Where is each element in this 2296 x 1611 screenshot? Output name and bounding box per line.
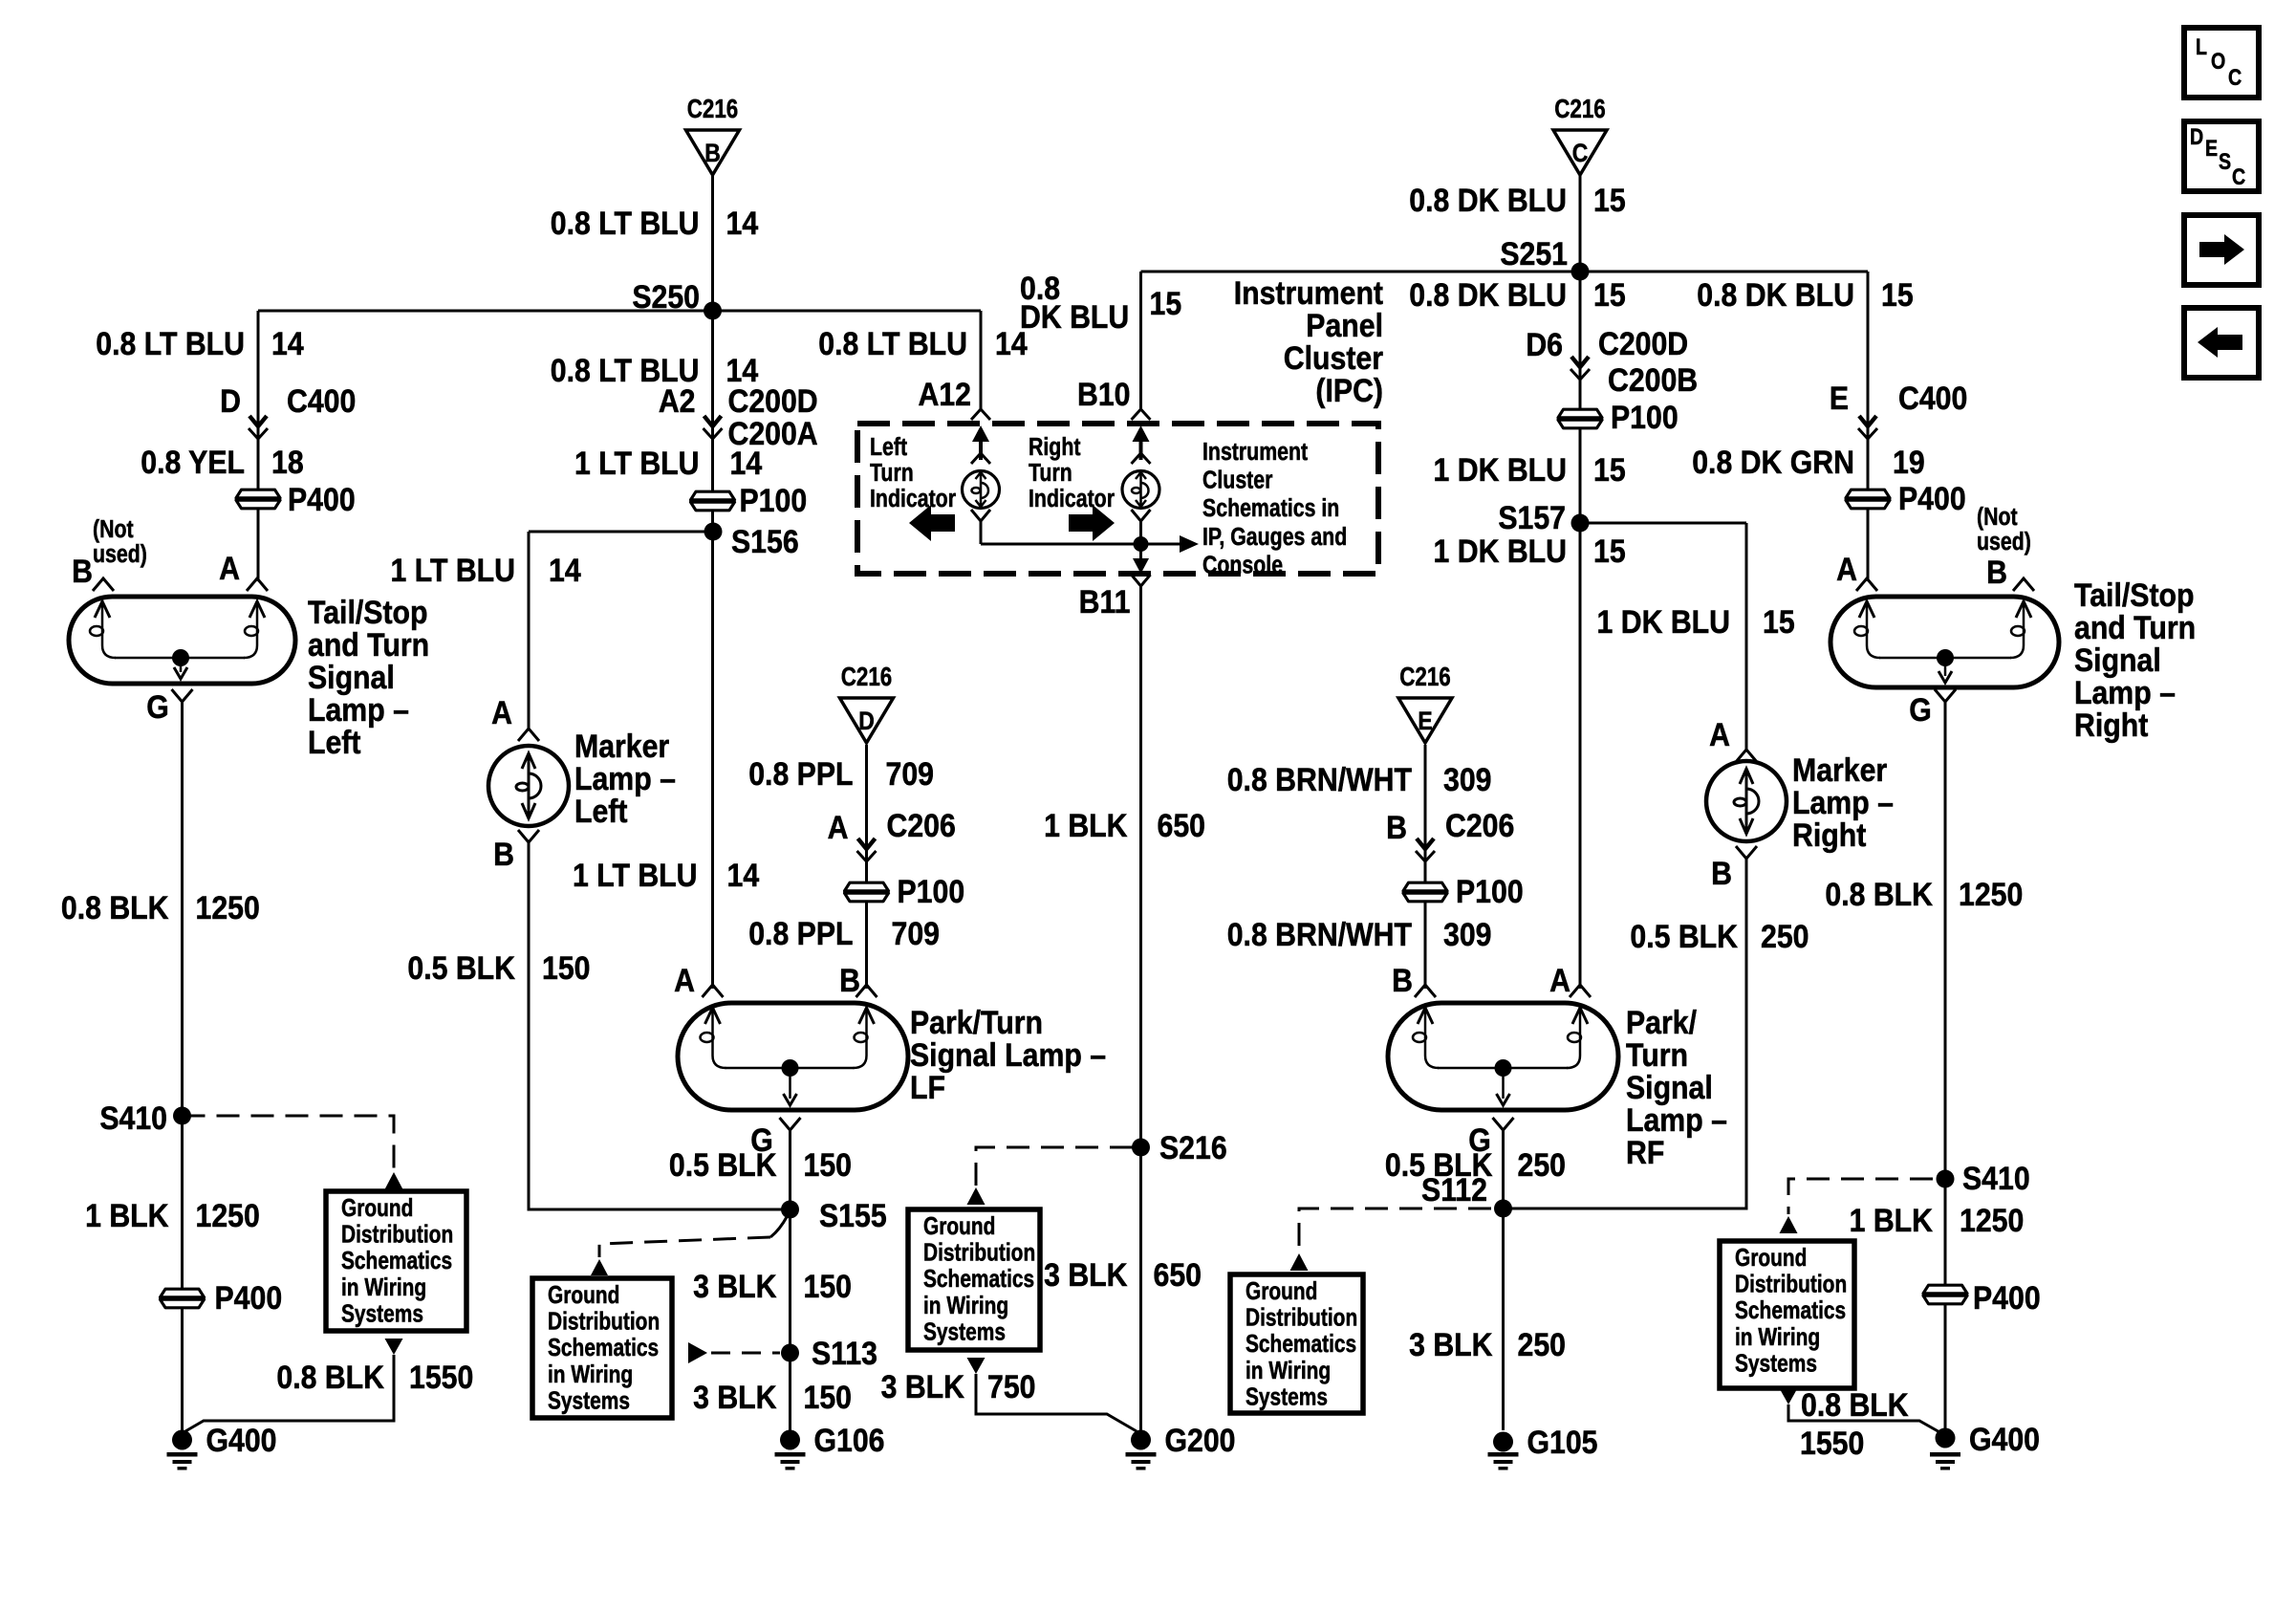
svg-text:Signal Lamp –: Signal Lamp – (910, 1036, 1106, 1073)
svg-text:A: A (1549, 962, 1570, 998)
svg-text:A: A (674, 962, 695, 998)
svg-text:1550: 1550 (409, 1359, 473, 1395)
svg-text:309: 309 (1443, 916, 1491, 952)
svg-text:750: 750 (987, 1368, 1035, 1404)
svg-text:S: S (2219, 148, 2231, 174)
svg-text:Lamp –: Lamp – (1626, 1101, 1727, 1138)
svg-text:0.8 BLK: 0.8 BLK (1825, 876, 1933, 912)
svg-text:Left: Left (870, 433, 907, 462)
svg-text:709: 709 (892, 915, 940, 951)
svg-text:Schematics: Schematics (548, 1334, 659, 1361)
svg-text:Schematics in: Schematics in (1202, 494, 1339, 523)
svg-text:Left: Left (574, 793, 628, 829)
svg-text:Schematics: Schematics (1735, 1296, 1846, 1323)
svg-text:1 DK BLU: 1 DK BLU (1597, 603, 1730, 640)
svg-text:0.8 LT BLU: 0.8 LT BLU (96, 325, 245, 361)
svg-text:Lamp –: Lamp – (308, 691, 409, 728)
svg-text:0.8 BRN/WHT: 0.8 BRN/WHT (1227, 761, 1413, 797)
svg-text:Signal: Signal (1626, 1069, 1713, 1105)
svg-text:S112: S112 (1421, 1171, 1487, 1208)
svg-text:C216: C216 (841, 663, 893, 692)
svg-text:in Wiring: in Wiring (341, 1274, 426, 1300)
svg-text:14: 14 (271, 325, 304, 361)
svg-text:15: 15 (1881, 276, 1914, 313)
svg-text:0.8 DK GRN: 0.8 DK GRN (1692, 444, 1854, 480)
svg-text:P400: P400 (1973, 1279, 2041, 1316)
svg-text:1 DK BLU: 1 DK BLU (1434, 533, 1567, 569)
svg-text:in Wiring: in Wiring (923, 1292, 1008, 1318)
svg-text:0.5 BLK: 0.5 BLK (1630, 918, 1738, 954)
svg-text:Distribution: Distribution (548, 1308, 660, 1335)
svg-text:S410: S410 (99, 1099, 167, 1136)
svg-text:0.8 BLK: 0.8 BLK (276, 1359, 384, 1395)
svg-text:Tail/Stop: Tail/Stop (2074, 577, 2194, 613)
svg-text:S410: S410 (1962, 1160, 2030, 1196)
svg-text:Turn: Turn (870, 459, 914, 488)
svg-text:Systems: Systems (1735, 1349, 1817, 1376)
svg-text:Distribution: Distribution (1245, 1304, 1357, 1331)
svg-text:15: 15 (1593, 533, 1626, 569)
svg-text:14: 14 (726, 205, 759, 241)
svg-text:B: B (1392, 962, 1413, 998)
svg-text:0.8 DK BLU: 0.8 DK BLU (1697, 276, 1854, 313)
svg-text:650: 650 (1154, 1256, 1202, 1293)
svg-text:18: 18 (271, 444, 304, 480)
svg-text:Ground: Ground (341, 1194, 413, 1221)
svg-text:15: 15 (1593, 451, 1626, 488)
svg-text:and Turn: and Turn (2074, 609, 2196, 645)
svg-text:IP, Gauges and: IP, Gauges and (1202, 523, 1347, 552)
svg-text:1250: 1250 (1959, 876, 2023, 912)
svg-text:309: 309 (1443, 761, 1491, 797)
svg-text:P100: P100 (1456, 873, 1524, 909)
svg-text:15: 15 (1593, 182, 1626, 218)
svg-text:C200B: C200B (1608, 361, 1698, 398)
svg-text:E: E (1418, 707, 1432, 735)
svg-text:A: A (491, 694, 512, 730)
svg-text:0.8 PPL: 0.8 PPL (748, 915, 853, 951)
svg-text:C200D: C200D (1598, 325, 1688, 361)
svg-text:A: A (219, 550, 240, 586)
svg-text:C200D: C200D (728, 382, 818, 419)
svg-text:14: 14 (730, 445, 763, 481)
svg-text:15: 15 (1150, 285, 1182, 321)
svg-text:Marker: Marker (1792, 751, 1888, 788)
svg-text:C216: C216 (687, 95, 739, 124)
svg-text:S113: S113 (812, 1335, 877, 1371)
svg-text:C216: C216 (1399, 663, 1451, 692)
svg-text:3 BLK: 3 BLK (693, 1379, 776, 1415)
svg-text:150: 150 (804, 1268, 852, 1304)
svg-text:0.8 DK BLU: 0.8 DK BLU (1409, 276, 1567, 313)
svg-text:Lamp –: Lamp – (2074, 674, 2176, 710)
svg-text:C: C (2228, 64, 2242, 90)
svg-text:1250: 1250 (196, 1197, 260, 1233)
svg-text:Systems: Systems (548, 1386, 630, 1413)
svg-text:Left: Left (308, 724, 361, 760)
svg-text:Schematics: Schematics (341, 1247, 452, 1274)
svg-text:DK BLU: DK BLU (1020, 298, 1129, 335)
svg-text:0.8 BLK: 0.8 BLK (61, 889, 169, 925)
svg-text:1550: 1550 (1800, 1425, 1864, 1461)
svg-text:3 BLK: 3 BLK (881, 1368, 964, 1404)
svg-text:19: 19 (1893, 444, 1925, 480)
svg-text:0.8 BRN/WHT: 0.8 BRN/WHT (1227, 916, 1413, 952)
svg-text:Park/Turn: Park/Turn (910, 1004, 1043, 1040)
svg-text:0.5 BLK: 0.5 BLK (669, 1146, 777, 1183)
svg-text:Systems: Systems (923, 1317, 1006, 1344)
svg-text:used): used) (1977, 528, 2031, 556)
svg-text:Right: Right (2074, 707, 2149, 743)
svg-text:C216: C216 (1554, 95, 1606, 124)
svg-text:Turn: Turn (1029, 459, 1072, 488)
svg-text:Instrument: Instrument (1234, 274, 1384, 311)
svg-text:Schematics: Schematics (1245, 1330, 1356, 1357)
svg-text:Systems: Systems (341, 1299, 423, 1326)
svg-text:C400: C400 (287, 382, 356, 419)
svg-text:D6: D6 (1526, 326, 1563, 362)
svg-text:Lamp –: Lamp – (1792, 784, 1894, 820)
svg-text:A2: A2 (659, 382, 696, 419)
svg-text:G105: G105 (1527, 1424, 1598, 1460)
svg-text:A12: A12 (918, 376, 971, 412)
svg-text:B: B (1986, 554, 2007, 590)
svg-text:650: 650 (1158, 807, 1205, 843)
svg-text:P400: P400 (288, 481, 356, 517)
svg-text:15: 15 (1593, 276, 1626, 313)
svg-text:P100: P100 (898, 873, 965, 909)
svg-text:in Wiring: in Wiring (1735, 1323, 1820, 1350)
svg-text:Schematics: Schematics (923, 1265, 1034, 1292)
svg-text:150: 150 (804, 1379, 852, 1415)
svg-text:P400: P400 (215, 1279, 283, 1316)
svg-text:1 LT BLU: 1 LT BLU (390, 552, 515, 588)
svg-text:P400: P400 (1898, 480, 1966, 516)
svg-text:P100: P100 (1611, 399, 1679, 435)
svg-text:Marker: Marker (574, 728, 670, 764)
svg-text:C206: C206 (887, 807, 956, 843)
svg-text:Lamp –: Lamp – (574, 760, 676, 796)
svg-text:0.8 YEL: 0.8 YEL (141, 444, 245, 480)
svg-text:C: C (1572, 139, 1589, 167)
svg-text:Right: Right (1792, 816, 1867, 853)
svg-text:250: 250 (1518, 1146, 1566, 1183)
svg-text:B: B (1386, 809, 1407, 845)
svg-text:B: B (72, 553, 93, 589)
svg-text:Signal: Signal (308, 659, 395, 695)
svg-text:Indicator: Indicator (1029, 485, 1115, 513)
svg-text:Ground: Ground (923, 1212, 995, 1239)
svg-text:0.5 BLK: 0.5 BLK (407, 949, 515, 986)
svg-text:L: L (2196, 33, 2207, 59)
svg-text:0.8 LT BLU: 0.8 LT BLU (551, 205, 700, 241)
svg-text:C206: C206 (1445, 807, 1514, 843)
svg-text:C400: C400 (1898, 380, 1967, 416)
svg-text:used): used) (93, 540, 147, 569)
svg-text:15: 15 (1763, 603, 1795, 640)
svg-text:150: 150 (804, 1146, 852, 1183)
svg-text:250: 250 (1518, 1326, 1566, 1362)
svg-text:A: A (828, 809, 849, 845)
svg-text:B: B (704, 139, 721, 167)
svg-text:D: D (858, 707, 875, 735)
svg-text:S251: S251 (1500, 235, 1568, 272)
svg-text:A: A (1709, 716, 1730, 752)
svg-text:RF: RF (1626, 1134, 1664, 1170)
svg-text:Distribution: Distribution (341, 1221, 453, 1248)
svg-text:P100: P100 (740, 482, 808, 518)
svg-text:Tail/Stop: Tail/Stop (308, 594, 427, 630)
svg-text:in Wiring: in Wiring (548, 1361, 633, 1387)
svg-text:1 LT BLU: 1 LT BLU (574, 445, 700, 481)
svg-text:1 BLK: 1 BLK (1850, 1202, 1933, 1238)
svg-text:Right: Right (1029, 433, 1081, 462)
svg-text:Cluster: Cluster (1284, 339, 1384, 376)
svg-text:B10: B10 (1077, 376, 1131, 412)
svg-text:0.8 BLK: 0.8 BLK (1801, 1386, 1909, 1423)
svg-text:1 DK BLU: 1 DK BLU (1434, 451, 1567, 488)
svg-text:G400: G400 (206, 1422, 277, 1458)
svg-text:D: D (2190, 123, 2203, 149)
svg-text:S250: S250 (632, 278, 700, 315)
svg-text:B: B (493, 836, 514, 872)
svg-text:Signal: Signal (2074, 642, 2161, 678)
svg-text:3 BLK: 3 BLK (1409, 1326, 1492, 1362)
svg-text:G: G (146, 688, 169, 725)
svg-text:0.8 DK BLU: 0.8 DK BLU (1409, 182, 1567, 218)
svg-text:B: B (839, 962, 860, 998)
svg-text:709: 709 (886, 755, 934, 792)
svg-text:Ground: Ground (548, 1281, 619, 1308)
svg-text:E: E (1830, 380, 1849, 416)
svg-text:0.8 LT BLU: 0.8 LT BLU (818, 325, 967, 361)
svg-text:Park/: Park/ (1626, 1004, 1697, 1040)
svg-text:Instrument: Instrument (1202, 438, 1308, 467)
svg-text:D: D (220, 382, 241, 419)
svg-text:A: A (1836, 551, 1857, 587)
svg-text:1 BLK: 1 BLK (85, 1197, 168, 1233)
svg-text:14: 14 (549, 552, 581, 588)
svg-text:3 BLK: 3 BLK (1044, 1256, 1127, 1293)
svg-text:14: 14 (727, 857, 760, 893)
svg-text:Indicator: Indicator (870, 485, 956, 513)
svg-text:1250: 1250 (196, 889, 260, 925)
svg-text:O: O (2211, 48, 2225, 74)
svg-text:LF: LF (910, 1069, 945, 1105)
svg-text:1250: 1250 (1960, 1202, 2024, 1238)
svg-text:in Wiring: in Wiring (1245, 1357, 1331, 1383)
svg-text:Systems: Systems (1245, 1382, 1328, 1409)
svg-text:E: E (2205, 135, 2218, 161)
svg-text:S216: S216 (1159, 1129, 1227, 1165)
svg-text:G400: G400 (1969, 1421, 2040, 1457)
svg-text:3 BLK: 3 BLK (693, 1268, 776, 1304)
svg-text:G: G (1909, 691, 1932, 728)
svg-text:S156: S156 (731, 523, 799, 559)
svg-text:Cluster: Cluster (1202, 467, 1272, 495)
svg-text:1 LT BLU: 1 LT BLU (573, 857, 698, 893)
svg-text:S157: S157 (1498, 499, 1566, 535)
svg-text:(IPC): (IPC) (1315, 372, 1383, 408)
svg-text:Distribution: Distribution (1735, 1271, 1847, 1297)
svg-text:C: C (2232, 163, 2245, 189)
svg-text:Ground: Ground (1735, 1244, 1807, 1271)
svg-text:0.8 PPL: 0.8 PPL (748, 755, 853, 792)
svg-text:Ground: Ground (1245, 1277, 1317, 1304)
svg-text:Distribution: Distribution (923, 1239, 1035, 1266)
svg-text:G200: G200 (1165, 1422, 1236, 1458)
svg-text:Turn: Turn (1626, 1036, 1688, 1073)
svg-text:and Turn: and Turn (308, 626, 429, 663)
svg-text:B: B (1711, 855, 1732, 891)
svg-text:150: 150 (542, 949, 590, 986)
svg-text:Panel: Panel (1306, 307, 1383, 343)
svg-text:1 BLK: 1 BLK (1044, 807, 1127, 843)
svg-text:B11: B11 (1079, 583, 1131, 620)
svg-text:250: 250 (1761, 918, 1809, 954)
svg-text:Console: Console (1202, 551, 1283, 579)
svg-text:S155: S155 (819, 1197, 887, 1233)
svg-text:G106: G106 (814, 1422, 885, 1458)
